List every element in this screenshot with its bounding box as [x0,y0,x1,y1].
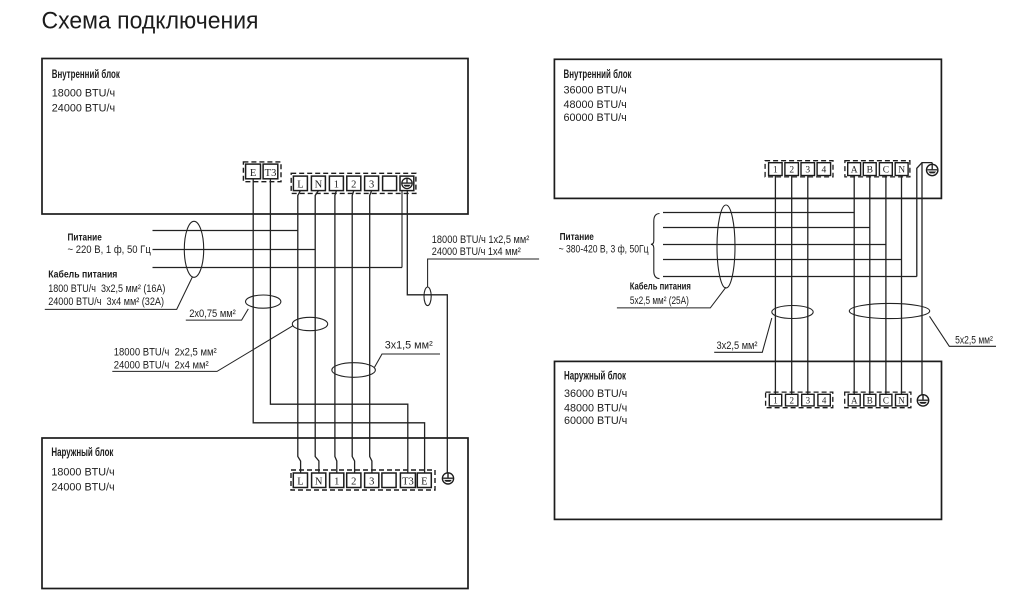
wire 1 [335,191,337,473]
earth symbol outdoor left [442,473,453,484]
terminal 3 indoor right [801,163,815,176]
wire C right [885,176,887,395]
wire PE supply right [917,163,932,277]
terminal 3 outdoor right [802,394,814,406]
svg-text:3: 3 [805,166,810,176]
supply line PE right [663,276,917,278]
svg-text:C: C [883,166,889,176]
terminal 2 indoor [347,176,361,191]
svg-text:Кабель питания: Кабель питания [630,280,691,292]
terminal N outdoor [312,473,326,488]
svg-text:24000 BTU/ч 2х4 мм²: 24000 BTU/ч 2х4 мм² [114,359,209,371]
terminal 2 indoor right [785,163,799,176]
terminal T3 indoor [263,164,278,179]
svg-text:4: 4 [822,166,827,176]
wire B right [869,176,871,395]
svg-text:C: C [883,396,889,406]
svg-text:1: 1 [773,166,778,176]
terminal block ABCN indoor right outline [845,161,910,177]
svg-text:B: B [867,396,873,406]
svg-text:N: N [315,180,323,191]
indoor unit box right [554,59,941,198]
svg-text:1: 1 [334,180,339,191]
terminal B indoor right [863,163,876,176]
cable ellipse E/T3 pair [246,295,281,308]
leader Кабель питания left [45,277,193,310]
terminal earth indoor [400,176,414,191]
svg-text:1: 1 [773,396,778,406]
svg-text:T3: T3 [265,168,277,179]
terminal 4 indoor right [817,163,831,176]
terminal 1 indoor right [769,163,783,176]
supply line N right [663,259,902,261]
svg-text:Наружный блок: Наружный блок [564,370,626,382]
svg-text:3: 3 [806,396,811,406]
svg-text:Наружный блок: Наружный блок [51,447,113,459]
terminal block 1234 outdoor right outline [766,392,833,408]
terminal E indoor [246,164,261,179]
svg-text:36000 BTU/ч: 36000 BTU/ч [564,85,627,97]
supply line C right [663,244,886,246]
svg-text:L: L [297,477,303,488]
wire 3 [370,191,372,473]
wire E indoor to E outdoor [253,179,424,473]
svg-text:2х0,75 мм²: 2х0,75 мм² [189,308,236,320]
svg-text:5х2,5 мм² (25А): 5х2,5 мм² (25А) [630,295,689,307]
wire 2 [352,191,354,473]
svg-text:60000 BTU/ч: 60000 BTU/ч [564,112,627,124]
cable ellipse L/N pair [292,317,327,330]
svg-text:Внутренний блок: Внутренний блок [564,69,632,81]
svg-text:N: N [315,477,323,488]
svg-text:~ 380-420 В, 3 ф, 50Гц: ~ 380-420 В, 3 ф, 50Гц [559,244,650,256]
svg-text:A: A [851,166,858,176]
terminal 2 outdoor right [786,394,798,406]
svg-text:2: 2 [351,180,356,191]
svg-text:Питание: Питание [68,231,102,243]
supply line L left [153,230,298,232]
wire N [315,191,319,473]
svg-text:Внутренний блок: Внутренний блок [52,69,120,81]
wire earth interconnect left [407,191,447,473]
svg-text:18000 BTU/ч 1х2,5 мм²: 18000 BTU/ч 1х2,5 мм² [432,234,530,246]
svg-text:N: N [898,396,905,406]
terminal block 1234 indoor right outline [765,161,833,177]
svg-text:18000 BTU/ч: 18000 BTU/ч [52,88,115,100]
terminal E outdoor [417,473,431,488]
svg-text:24000 BTU/ч: 24000 BTU/ч [52,102,115,114]
svg-text:1: 1 [334,477,339,488]
svg-text:Кабель питания: Кабель питания [48,269,117,281]
terminal 1 outdoor right [769,394,781,406]
terminal block E/T3 outline [243,162,281,182]
svg-text:Питание: Питание [560,231,594,243]
svg-text:Схема подключения: Схема подключения [42,8,259,35]
cable ellipse 1/2/3 [332,363,376,378]
svg-text:3х1,5 мм²: 3х1,5 мм² [385,340,433,352]
svg-text:N: N [898,166,905,176]
svg-text:2: 2 [789,396,794,406]
terminal 4 outdoor right [818,394,830,406]
svg-text:3х2,5 мм²: 3х2,5 мм² [717,340,758,352]
svg-text:48000 BTU/ч: 48000 BTU/ч [564,99,627,111]
indoor unit box left [42,59,468,215]
svg-text:18000 BTU/ч 2х2,5 мм²: 18000 BTU/ч 2х2,5 мм² [114,347,217,359]
terminal C indoor right [879,163,892,176]
terminal C outdoor right [880,394,892,406]
svg-text:E: E [250,168,256,179]
terminal A indoor right [848,163,861,176]
svg-text:T3: T3 [402,477,414,488]
terminal A outdoor right [848,394,860,406]
terminal 2 outdoor [347,473,361,488]
svg-text:3: 3 [369,180,374,191]
outdoor unit box left [42,438,468,589]
terminal 1 outdoor [330,473,344,488]
svg-text:~ 220 В, 1 ф, 50 Гц: ~ 220 В, 1 ф, 50 Гц [68,244,152,256]
terminal N indoor [311,176,325,191]
svg-text:60000 BTU/ч: 60000 BTU/ч [564,415,627,427]
terminal block L N 1 2 3 outline indoor [291,173,416,193]
svg-text:L: L [297,180,303,191]
cable ellipse 123 right [772,306,813,319]
svg-text:4: 4 [822,396,827,406]
svg-text:2: 2 [351,477,356,488]
wire 1 right [774,176,776,395]
terminal blank outdoor [382,473,396,488]
cable ellipse earth interconnect [424,287,431,306]
svg-text:A: A [851,396,858,406]
earth symbol indoor right [927,163,938,176]
svg-text:E: E [421,477,427,488]
terminal L indoor [293,176,307,191]
terminal N indoor right [895,163,908,176]
wire A right [853,176,855,395]
terminal N outdoor right [896,394,908,406]
supply line PE left [153,267,403,269]
svg-text:2: 2 [789,166,794,176]
supply cable ellipse right [717,205,735,288]
svg-text:1800 BTU/ч 3х2,5 мм² (16А): 1800 BTU/ч 3х2,5 мм² (16А) [48,283,165,295]
outdoor unit box right [555,361,942,519]
svg-text:36000 BTU/ч: 36000 BTU/ч [564,388,627,400]
svg-text:3: 3 [369,477,374,488]
wire earth interconnect right [921,163,923,395]
terminal block ABCN outdoor right outline [845,392,911,408]
terminal block outdoor left outline [291,470,435,490]
leader Кабель питания right [617,287,726,308]
svg-text:48000 BTU/ч: 48000 BTU/ч [564,402,627,414]
svg-text:24000 BTU/ч 3х4 мм² (32А): 24000 BTU/ч 3х4 мм² (32А) [48,296,164,308]
supply cable ellipse left [184,221,203,277]
supply line A right [663,212,854,214]
supply line B right [663,227,870,229]
terminal L outdoor [293,473,307,488]
terminal 3 indoor [365,176,379,191]
wire T3 indoor to T3 outdoor [270,179,407,473]
wire 2 right [791,176,793,395]
earth symbol outdoor right [917,395,928,406]
svg-text:5х2,5 мм²: 5х2,5 мм² [955,334,993,346]
terminal B outdoor right [864,394,876,406]
svg-text:B: B [867,166,873,176]
cable ellipse ABCN+PE right [849,303,929,318]
terminal 1 indoor [329,176,343,191]
wire 3 right [807,176,809,395]
svg-text:18000 BTU/ч: 18000 BTU/ч [51,466,114,478]
wire L [298,191,301,473]
svg-text:24000 BTU/ч 1х4 мм²: 24000 BTU/ч 1х4 мм² [432,246,521,258]
wire PE supply to earth terminal [401,191,403,268]
terminal T3 outdoor [400,473,415,488]
terminal blank indoor [383,176,397,191]
supply line N left [153,249,316,251]
terminal 3 outdoor [365,473,379,488]
brace supply right [651,214,660,279]
wire N right [901,176,903,395]
svg-text:24000 BTU/ч: 24000 BTU/ч [51,482,114,494]
